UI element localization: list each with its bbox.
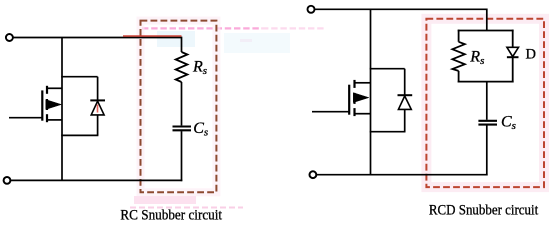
capacitor Cs right xyxy=(478,121,497,125)
dashed box RC snubber xyxy=(141,21,217,193)
wire resistor to capacitor xyxy=(181,82,183,125)
wire main vertical branch xyxy=(61,38,63,181)
body arrow xyxy=(353,93,369,103)
wire top rail xyxy=(13,38,182,53)
wire bottom rail xyxy=(11,179,183,181)
body arrow xyxy=(46,100,62,110)
wire diode top lead right xyxy=(404,69,406,95)
wire block to capacitor right xyxy=(486,82,488,120)
wire capacitor down right xyxy=(486,126,488,176)
left edge bottom part xyxy=(458,71,460,83)
channel segment middle xyxy=(46,99,48,110)
right edge bottom part xyxy=(512,57,514,82)
svg-text:D: D xyxy=(526,46,536,62)
diode body (anti-parallel) xyxy=(90,100,105,115)
parallel block rectangle (R // D) xyxy=(452,30,518,83)
diode D (on right edge, pointing down) xyxy=(507,47,519,56)
wire diode bottom lead right xyxy=(404,109,406,131)
drain stub xyxy=(47,87,62,89)
capacitor Cs xyxy=(173,127,192,131)
transistor Q2 (MOSFET) xyxy=(312,80,371,116)
source stub xyxy=(355,113,371,115)
wire main vertical branch right xyxy=(370,9,372,174)
artifact cyan wash top-left of boxes xyxy=(157,31,195,47)
channel segment bottom xyxy=(353,108,355,116)
artifact red line on top rail xyxy=(123,35,182,37)
channel segment middle xyxy=(353,93,355,104)
wire drain node horizontal xyxy=(61,76,97,78)
artifact pink halo around left box xyxy=(141,21,217,193)
wire capacitor down xyxy=(181,131,183,181)
gate lead xyxy=(312,111,349,113)
artifact pink fragments right of left box xyxy=(240,39,252,42)
source stub xyxy=(47,119,62,121)
drain stub xyxy=(355,82,371,84)
channel segment top xyxy=(46,86,48,94)
artifact pink halo around right box xyxy=(426,19,544,187)
wire source connect horizontal right xyxy=(370,131,406,133)
channel segment bottom xyxy=(46,114,48,122)
resistor Rs xyxy=(176,52,188,82)
channel segment top xyxy=(353,80,355,88)
terminal top-right circuit xyxy=(308,6,315,13)
terminal top-left xyxy=(6,34,13,41)
diode body right (anti-parallel) xyxy=(398,95,413,109)
resistor Rs (on left edge) xyxy=(452,42,464,71)
terminal bottom right circuit xyxy=(310,171,317,178)
dashed box RCD snubber xyxy=(426,19,544,187)
top edge xyxy=(458,30,514,32)
wire diode top lead xyxy=(97,77,99,100)
wire top rail right xyxy=(315,9,487,30)
artifact pink dashed line below left box xyxy=(130,207,243,209)
artifact red dash inside diode xyxy=(97,105,99,113)
artifact magenta dashed line top xyxy=(142,27,262,29)
wire drain node horizontal right xyxy=(370,68,405,70)
wire bottom rail right xyxy=(317,174,488,176)
bottom edge xyxy=(458,81,514,83)
wire source connect horizontal xyxy=(61,134,98,136)
gate bar xyxy=(348,85,350,115)
svg-text:RC Snubber circuit: RC Snubber circuit xyxy=(120,208,222,224)
terminal bottom-left xyxy=(4,177,11,184)
svg-text:RCD Snubber circuit: RCD Snubber circuit xyxy=(429,203,539,219)
artifact pink band above left caption xyxy=(134,196,196,204)
transistor Q1 (MOSFET) xyxy=(9,86,62,122)
gate lead xyxy=(9,117,42,119)
right edge top part xyxy=(512,30,514,48)
left edge top part xyxy=(458,30,460,42)
wire diode bottom lead xyxy=(97,115,99,135)
gate bar xyxy=(41,90,43,120)
